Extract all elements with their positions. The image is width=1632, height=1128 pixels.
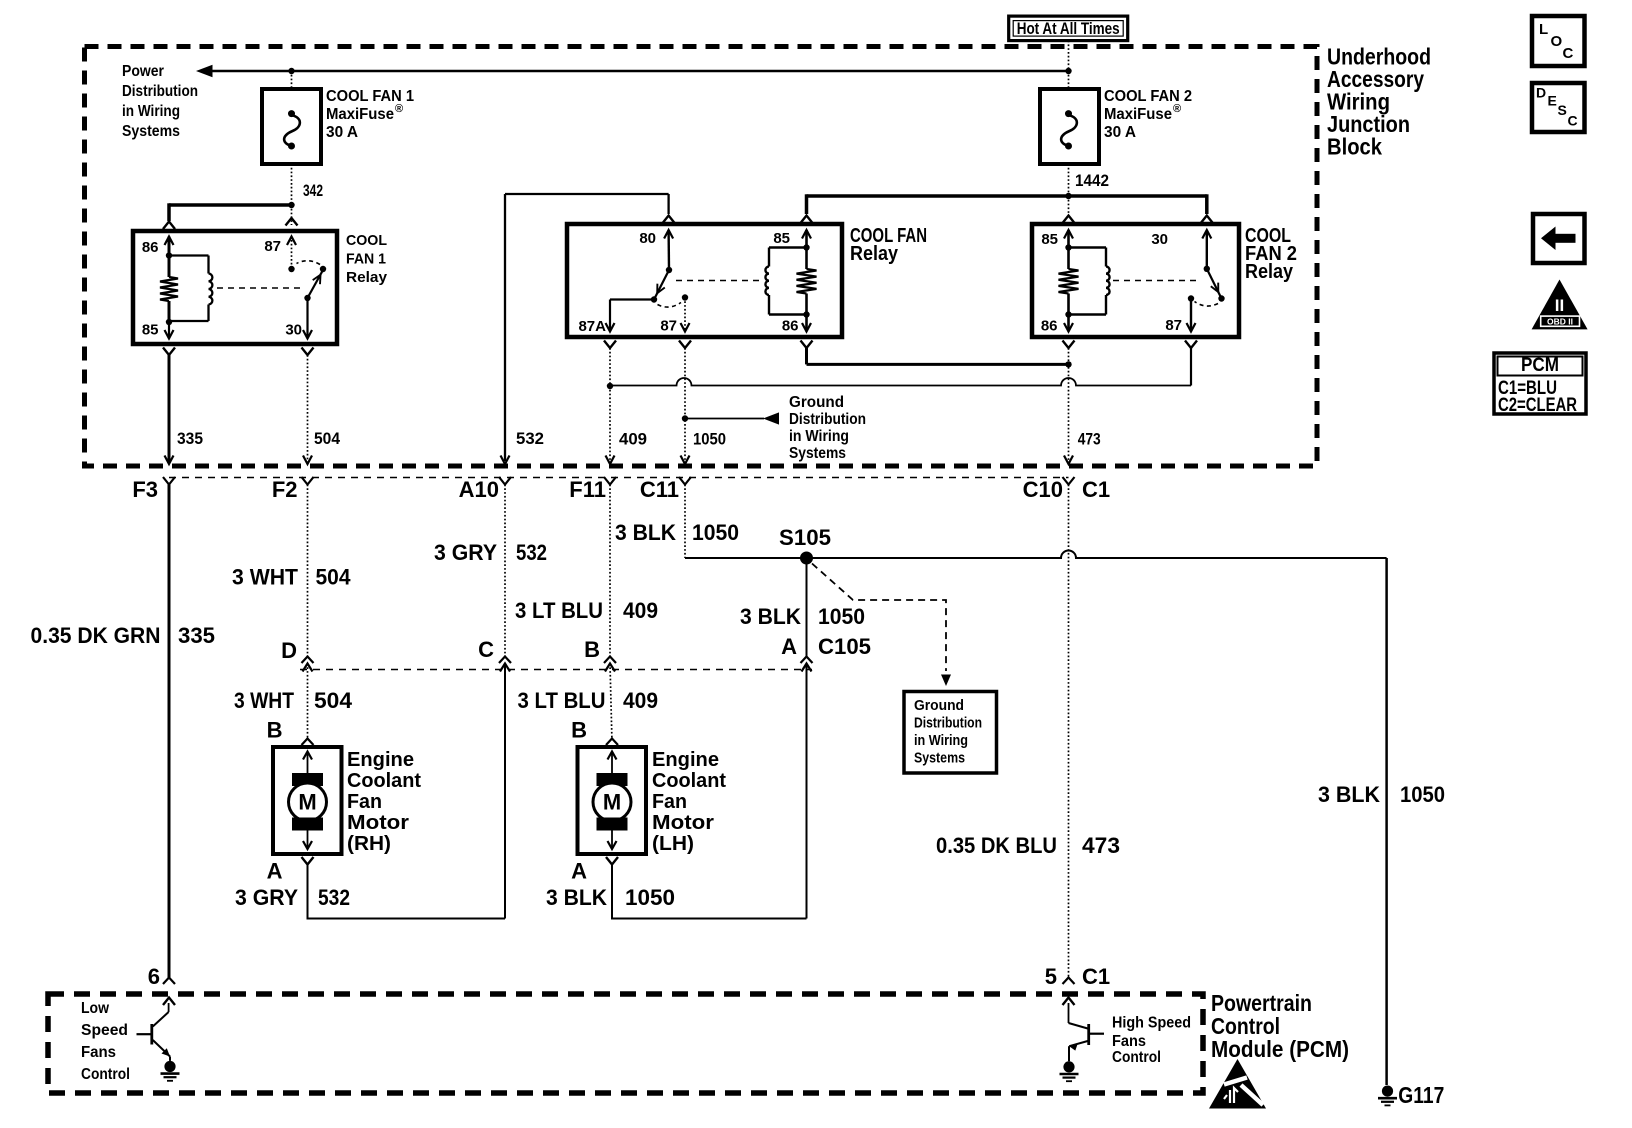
svg-text:Control: Control — [1112, 1049, 1161, 1066]
icon: DESC button — [1532, 83, 1585, 132]
arrowhead: block exit at F3 — [165, 456, 174, 465]
svg-text:30: 30 — [1151, 231, 1168, 248]
svg-text:3 LT BLU: 3 LT BLU — [518, 688, 606, 713]
wire: circuit 504 inside block — [307, 355, 309, 463]
wire: 504 WHT from C105 D to RH motor B — [307, 664, 309, 739]
wire: feed split to relay1 pins 86/87 — [169, 203, 292, 207]
svg-text:504: 504 — [314, 688, 352, 713]
cool fan relay actuator dashed link — [676, 280, 760, 282]
svg-text:Coolant: Coolant — [347, 770, 421, 792]
splice S105 — [800, 552, 813, 565]
icon: OBD II triangle — [1532, 280, 1588, 330]
fuse F1: COOL FAN 1 MaxiFuse 30 A — [291, 71, 293, 89]
svg-text:3 BLK: 3 BLK — [615, 520, 677, 545]
svg-text:Systems: Systems — [914, 751, 965, 767]
relay K2: COOL FAN Relay box — [567, 224, 842, 337]
svg-text:0.35 DK BLU: 0.35 DK BLU — [936, 833, 1057, 858]
node: junction on 409 at 87A link — [607, 383, 613, 389]
relay1 coil resistor — [168, 237, 171, 278]
svg-text:85: 85 — [1041, 231, 1058, 248]
svg-text:409: 409 — [623, 688, 658, 713]
svg-text:D: D — [1536, 85, 1546, 101]
PCM box dashed outline — [48, 994, 1203, 1093]
fuse F2: COOL FAN 2 MaxiFuse 30 A — [1068, 71, 1070, 89]
wire: 1442 bus to COOL FAN relay 85 and COOL FAN 2 relay 30 — [807, 194, 1207, 198]
svg-text:5: 5 — [1045, 964, 1057, 989]
wire: S105 bus to G117 with hop over 473 — [685, 551, 1387, 559]
svg-text:Distribution: Distribution — [789, 411, 866, 428]
connector chevron: cool fan relay pin 87A exit — [604, 341, 616, 349]
svg-text:473: 473 — [1078, 431, 1101, 449]
svg-text:Motor: Motor — [652, 812, 714, 834]
connector F11 — [604, 477, 616, 485]
svg-text:Engine: Engine — [347, 749, 414, 771]
wire: 504 WHT from F2 to C105 D — [307, 485, 309, 657]
svg-text:409: 409 — [619, 431, 647, 449]
svg-text:87: 87 — [660, 318, 677, 335]
svg-text:COOL: COOL — [346, 232, 387, 249]
svg-text:C: C — [1563, 45, 1574, 62]
svg-text:86: 86 — [1041, 318, 1058, 335]
arrowhead: dashed to ground dist box — [941, 675, 951, 687]
svg-text:B: B — [267, 718, 283, 743]
icon: ESD warning triangle — [1209, 1059, 1266, 1109]
connector chevron: relay2 pin 86 exit — [1063, 341, 1075, 349]
legend: PCM connector colors — [1494, 353, 1586, 414]
svg-text:1050: 1050 — [692, 520, 739, 545]
svg-text:1050: 1050 — [1400, 782, 1445, 807]
relay1 switch — [288, 266, 294, 272]
connector chevron: relay2 pin 85 entry — [1063, 216, 1075, 224]
transistor Q2: High Speed Fans Control — [1068, 1003, 1070, 1023]
wire: 1442 from fuse2 — [1068, 164, 1070, 196]
svg-text:Power: Power — [122, 63, 164, 80]
svg-text:Ground: Ground — [914, 698, 964, 714]
svg-text:S: S — [1558, 102, 1567, 118]
svg-text:Relay: Relay — [850, 243, 899, 265]
svg-text:86: 86 — [142, 239, 159, 256]
svg-text:B: B — [571, 718, 587, 743]
svg-text:532: 532 — [516, 430, 544, 448]
icon: back arrow button — [1533, 214, 1585, 263]
svg-text:532: 532 — [516, 540, 547, 565]
svg-text:Motor: Motor — [347, 812, 409, 834]
svg-text:C: C — [1568, 113, 1578, 129]
svg-text:3 BLK: 3 BLK — [546, 885, 608, 910]
svg-text:409: 409 — [623, 598, 658, 623]
relay2 switch — [1204, 266, 1210, 272]
connector chevron: cool fan relay pin 86 exit — [801, 341, 813, 349]
node: ground distribution tap on 1050 — [682, 415, 688, 421]
svg-text:30 A: 30 A — [1104, 124, 1136, 141]
connector C105 pin B — [604, 657, 616, 664]
svg-text:Fan: Fan — [652, 791, 687, 813]
motor M: Engine Coolant Fan Motor (RH) — [302, 739, 314, 746]
relay1 coil inductor — [169, 254, 209, 256]
ground G117 — [1382, 1086, 1393, 1097]
connector F2 — [302, 477, 314, 485]
svg-text:85: 85 — [773, 230, 790, 247]
svg-text:30 A: 30 A — [326, 124, 358, 141]
svg-text:O: O — [1551, 33, 1563, 50]
wire: 87A to relay2 87 crossover with hops — [610, 378, 1191, 386]
icon: LOC button — [1532, 16, 1585, 66]
wire: 532 GRY from C105 C down and to RH motor A — [504, 664, 506, 919]
svg-text:C2=CLEAR: C2=CLEAR — [1498, 395, 1577, 416]
connector chevron: cool fan relay pin 85 entry — [801, 216, 813, 224]
wire: 1050 BLK from C105 A down to LH motor A loop — [806, 664, 808, 919]
svg-text:87: 87 — [264, 238, 281, 255]
svg-text:A10: A10 — [459, 477, 499, 502]
connector chevron: relay1 pin 30 exit — [302, 348, 314, 356]
svg-text:in Wiring: in Wiring — [122, 103, 180, 120]
connector chevron: cool fan relay pin 80 entry — [663, 216, 675, 224]
relay2 coil inductor — [1069, 246, 1107, 248]
wire: cool fan relay 86 to relay2 86 link — [805, 348, 808, 364]
svg-text:342: 342 — [303, 182, 323, 200]
motor M: Engine Coolant Fan Motor (LH) — [606, 739, 618, 746]
connector chevron: relay1 pin 87 entry — [286, 218, 298, 226]
svg-text:Control: Control — [81, 1066, 130, 1083]
connector A10 — [499, 477, 511, 485]
svg-text:504: 504 — [316, 565, 351, 590]
connector C11 — [679, 477, 691, 485]
svg-text:®: ® — [395, 103, 403, 115]
cool fan relay 87A link — [610, 298, 654, 300]
svg-text:3 BLK: 3 BLK — [740, 604, 802, 629]
svg-text:Block: Block — [1327, 133, 1382, 159]
svg-text:in Wiring: in Wiring — [914, 733, 968, 749]
relay1 actuator dashed link — [217, 287, 301, 289]
svg-text:G117: G117 — [1398, 1082, 1444, 1108]
svg-text:1050: 1050 — [625, 885, 675, 910]
connector C105 pin D — [302, 657, 314, 664]
svg-text:in Wiring: in Wiring — [789, 428, 849, 445]
svg-text:85: 85 — [142, 322, 159, 339]
PCM pin 5 C1 entry — [1063, 978, 1075, 985]
svg-text:30: 30 — [285, 322, 302, 339]
connector chevron: relay2 pin 87 exit — [1185, 341, 1197, 349]
wire: LH motor A loop to C105 A — [612, 865, 807, 919]
svg-text:Systems: Systems — [789, 445, 846, 462]
svg-text:PCM: PCM — [1521, 355, 1559, 376]
junction block: Underhood Accessory Wiring Junction Block dashed outline — [85, 47, 1318, 467]
svg-text:86: 86 — [782, 318, 799, 335]
svg-text:Distribution: Distribution — [914, 716, 982, 732]
svg-text:A: A — [781, 634, 797, 659]
svg-text:Engine: Engine — [652, 749, 719, 771]
svg-text:M: M — [298, 790, 316, 815]
relay K1: COOL FAN 1 Relay box — [133, 231, 337, 344]
wire: relay2 86 drop circuit 473 — [1068, 348, 1070, 463]
wire: ground distribution stub — [685, 418, 764, 420]
svg-text:E: E — [1548, 93, 1557, 109]
wire: 87A drop circuit 409 — [609, 348, 611, 463]
svg-text:Relay: Relay — [1245, 261, 1294, 283]
svg-text:Relay: Relay — [346, 269, 388, 286]
svg-text:(RH): (RH) — [347, 833, 391, 855]
svg-text:Systems: Systems — [122, 123, 180, 140]
svg-text:Ground: Ground — [789, 394, 844, 411]
svg-text:C105: C105 — [818, 634, 871, 659]
svg-text:F3: F3 — [132, 477, 158, 502]
relay2 coil resistor — [1067, 230, 1070, 269]
svg-text:C11: C11 — [640, 477, 679, 502]
connector row dashed line — [169, 477, 1069, 479]
svg-text:6: 6 — [148, 964, 160, 989]
svg-text:High Speed: High Speed — [1112, 1015, 1191, 1032]
svg-text:80: 80 — [639, 230, 656, 247]
svg-text:(LH): (LH) — [652, 833, 694, 855]
svg-text:Fans: Fans — [1112, 1033, 1146, 1050]
svg-text:L: L — [1539, 21, 1548, 38]
svg-text:FAN 1: FAN 1 — [346, 251, 386, 268]
svg-text:D: D — [281, 638, 297, 663]
svg-text:II: II — [1555, 296, 1564, 315]
label: Hot At All Times — [1009, 16, 1128, 40]
arrowhead: block exit at F2 — [303, 456, 312, 465]
arrowhead: block exit at F11 — [606, 456, 615, 465]
wire: 1050 BLK S105 down to C105 A — [806, 558, 808, 656]
wire: 1050 BLK from C11 to S105 — [684, 485, 686, 559]
svg-text:OBD II: OBD II — [1547, 317, 1573, 327]
svg-text:Module (PCM): Module (PCM) — [1211, 1036, 1349, 1062]
svg-text:Coolant: Coolant — [652, 770, 726, 792]
svg-text:3 BLK: 3 BLK — [1318, 782, 1381, 807]
arrowhead: to Ground Distribution — [763, 412, 779, 424]
svg-text:87A: 87A — [578, 318, 606, 335]
wire: 1050 BLK right bus S105 to G117 drop — [1385, 558, 1388, 1085]
PCM pin 6 entry — [163, 978, 175, 985]
svg-text:M: M — [603, 790, 621, 815]
wire: Hot At All Times feed drop to junction — [1068, 41, 1070, 71]
svg-text:3 WHT: 3 WHT — [234, 688, 294, 713]
svg-text:504: 504 — [314, 430, 341, 448]
connector chevron: relay1 pin 86 entry — [163, 222, 175, 230]
svg-text:A: A — [267, 859, 283, 884]
wire: main power feed (Hot At All Times bus) — [209, 70, 1069, 73]
wire: 335 DK GRN from F3 to PCM pin 6 — [168, 485, 171, 979]
svg-text:Fan: Fan — [347, 791, 382, 813]
svg-text:335: 335 — [178, 623, 215, 648]
arrowhead: block exit at C11 — [681, 456, 690, 465]
wire: RH motor A loop to C105 C — [308, 865, 506, 919]
svg-text:3 GRY: 3 GRY — [434, 540, 497, 565]
transistor Q1: Low Speed Fans Control — [168, 1003, 170, 1012]
svg-text:B: B — [584, 637, 600, 662]
svg-text:MaxiFuse: MaxiFuse — [326, 106, 394, 123]
svg-text:532: 532 — [318, 885, 350, 910]
wire: 409 LT BLU from C105 B to LH motor B — [610, 664, 612, 739]
relay K3: COOL FAN 2 Relay box — [1032, 224, 1239, 337]
svg-text:Speed: Speed — [81, 1022, 128, 1039]
connector C105 pin A — [801, 657, 813, 664]
svg-text:335: 335 — [177, 430, 203, 448]
wire: 87 drop circuit 1050 — [684, 348, 686, 463]
svg-text:F2: F2 — [272, 477, 298, 502]
connector chevron: relay2 pin 30 entry — [1201, 216, 1213, 224]
svg-text:S105: S105 — [779, 525, 831, 550]
wire: relay2 87 drop — [1190, 348, 1192, 386]
svg-text:3 WHT: 3 WHT — [232, 565, 298, 590]
svg-text:1050: 1050 — [693, 431, 726, 449]
svg-text:1050: 1050 — [818, 604, 865, 629]
wire: S105 dashed branch to ground distribution — [812, 564, 946, 672]
svg-text:C10: C10 — [1023, 477, 1063, 502]
cool fan relay switch — [666, 267, 672, 273]
wire: 473 DK BLU from C10 to PCM pin 5 — [1068, 485, 1070, 979]
connector C105 pin C — [499, 657, 511, 664]
wire: 532 riser from A10 up and over to COOL FAN relay pin 80 — [504, 194, 506, 461]
svg-text:Hot At All Times: Hot At All Times — [1017, 19, 1120, 38]
svg-text:A: A — [571, 859, 587, 884]
connector chevron: cool fan relay pin 87 exit — [679, 341, 691, 349]
svg-text:®: ® — [1173, 103, 1181, 115]
svg-text:F11: F11 — [569, 477, 606, 502]
svg-text:3 GRY: 3 GRY — [235, 885, 298, 910]
arrowhead: block exit at A10 — [501, 456, 510, 465]
connector C10 — [1063, 477, 1075, 485]
connector F3 — [163, 477, 175, 485]
connector C105 dashed line — [300, 669, 812, 671]
svg-text:Distribution: Distribution — [122, 83, 198, 100]
svg-text:MaxiFuse: MaxiFuse — [1104, 106, 1172, 123]
box: Ground Distribution in Wiring Systems — [904, 692, 997, 774]
svg-text:C1: C1 — [1082, 964, 1110, 989]
svg-text:C: C — [478, 637, 494, 662]
svg-text:87: 87 — [1165, 317, 1182, 334]
node: fuse1 tap on feed — [288, 68, 294, 74]
wire: 532 GRY from A10 to C105 C — [504, 485, 506, 657]
svg-text:Low: Low — [81, 1000, 110, 1017]
wire: 342 from fuse1 to relay1 — [291, 164, 293, 205]
relay2 actuator dashed link — [1113, 280, 1200, 282]
wire: 409 LT BLU from F11 to C105 B — [609, 485, 611, 657]
svg-text:C1: C1 — [1082, 477, 1110, 502]
svg-text:3 LT BLU: 3 LT BLU — [515, 598, 603, 623]
node: fuse2 tap on feed — [1065, 68, 1071, 74]
wire: circuit 335 inside block — [168, 355, 171, 463]
cool fan relay coil inductor — [769, 246, 807, 248]
svg-text:1442: 1442 — [1075, 172, 1109, 190]
connector chevron: relay1 pin 85 exit — [163, 348, 175, 356]
svg-text:Fans: Fans — [81, 1044, 116, 1061]
arrowhead: block exit at C10 — [1064, 456, 1073, 465]
arrowhead: power feed to Power Distribution — [196, 65, 213, 77]
svg-text:0.35 DK GRN: 0.35 DK GRN — [31, 623, 161, 648]
svg-text:473: 473 — [1082, 833, 1120, 858]
